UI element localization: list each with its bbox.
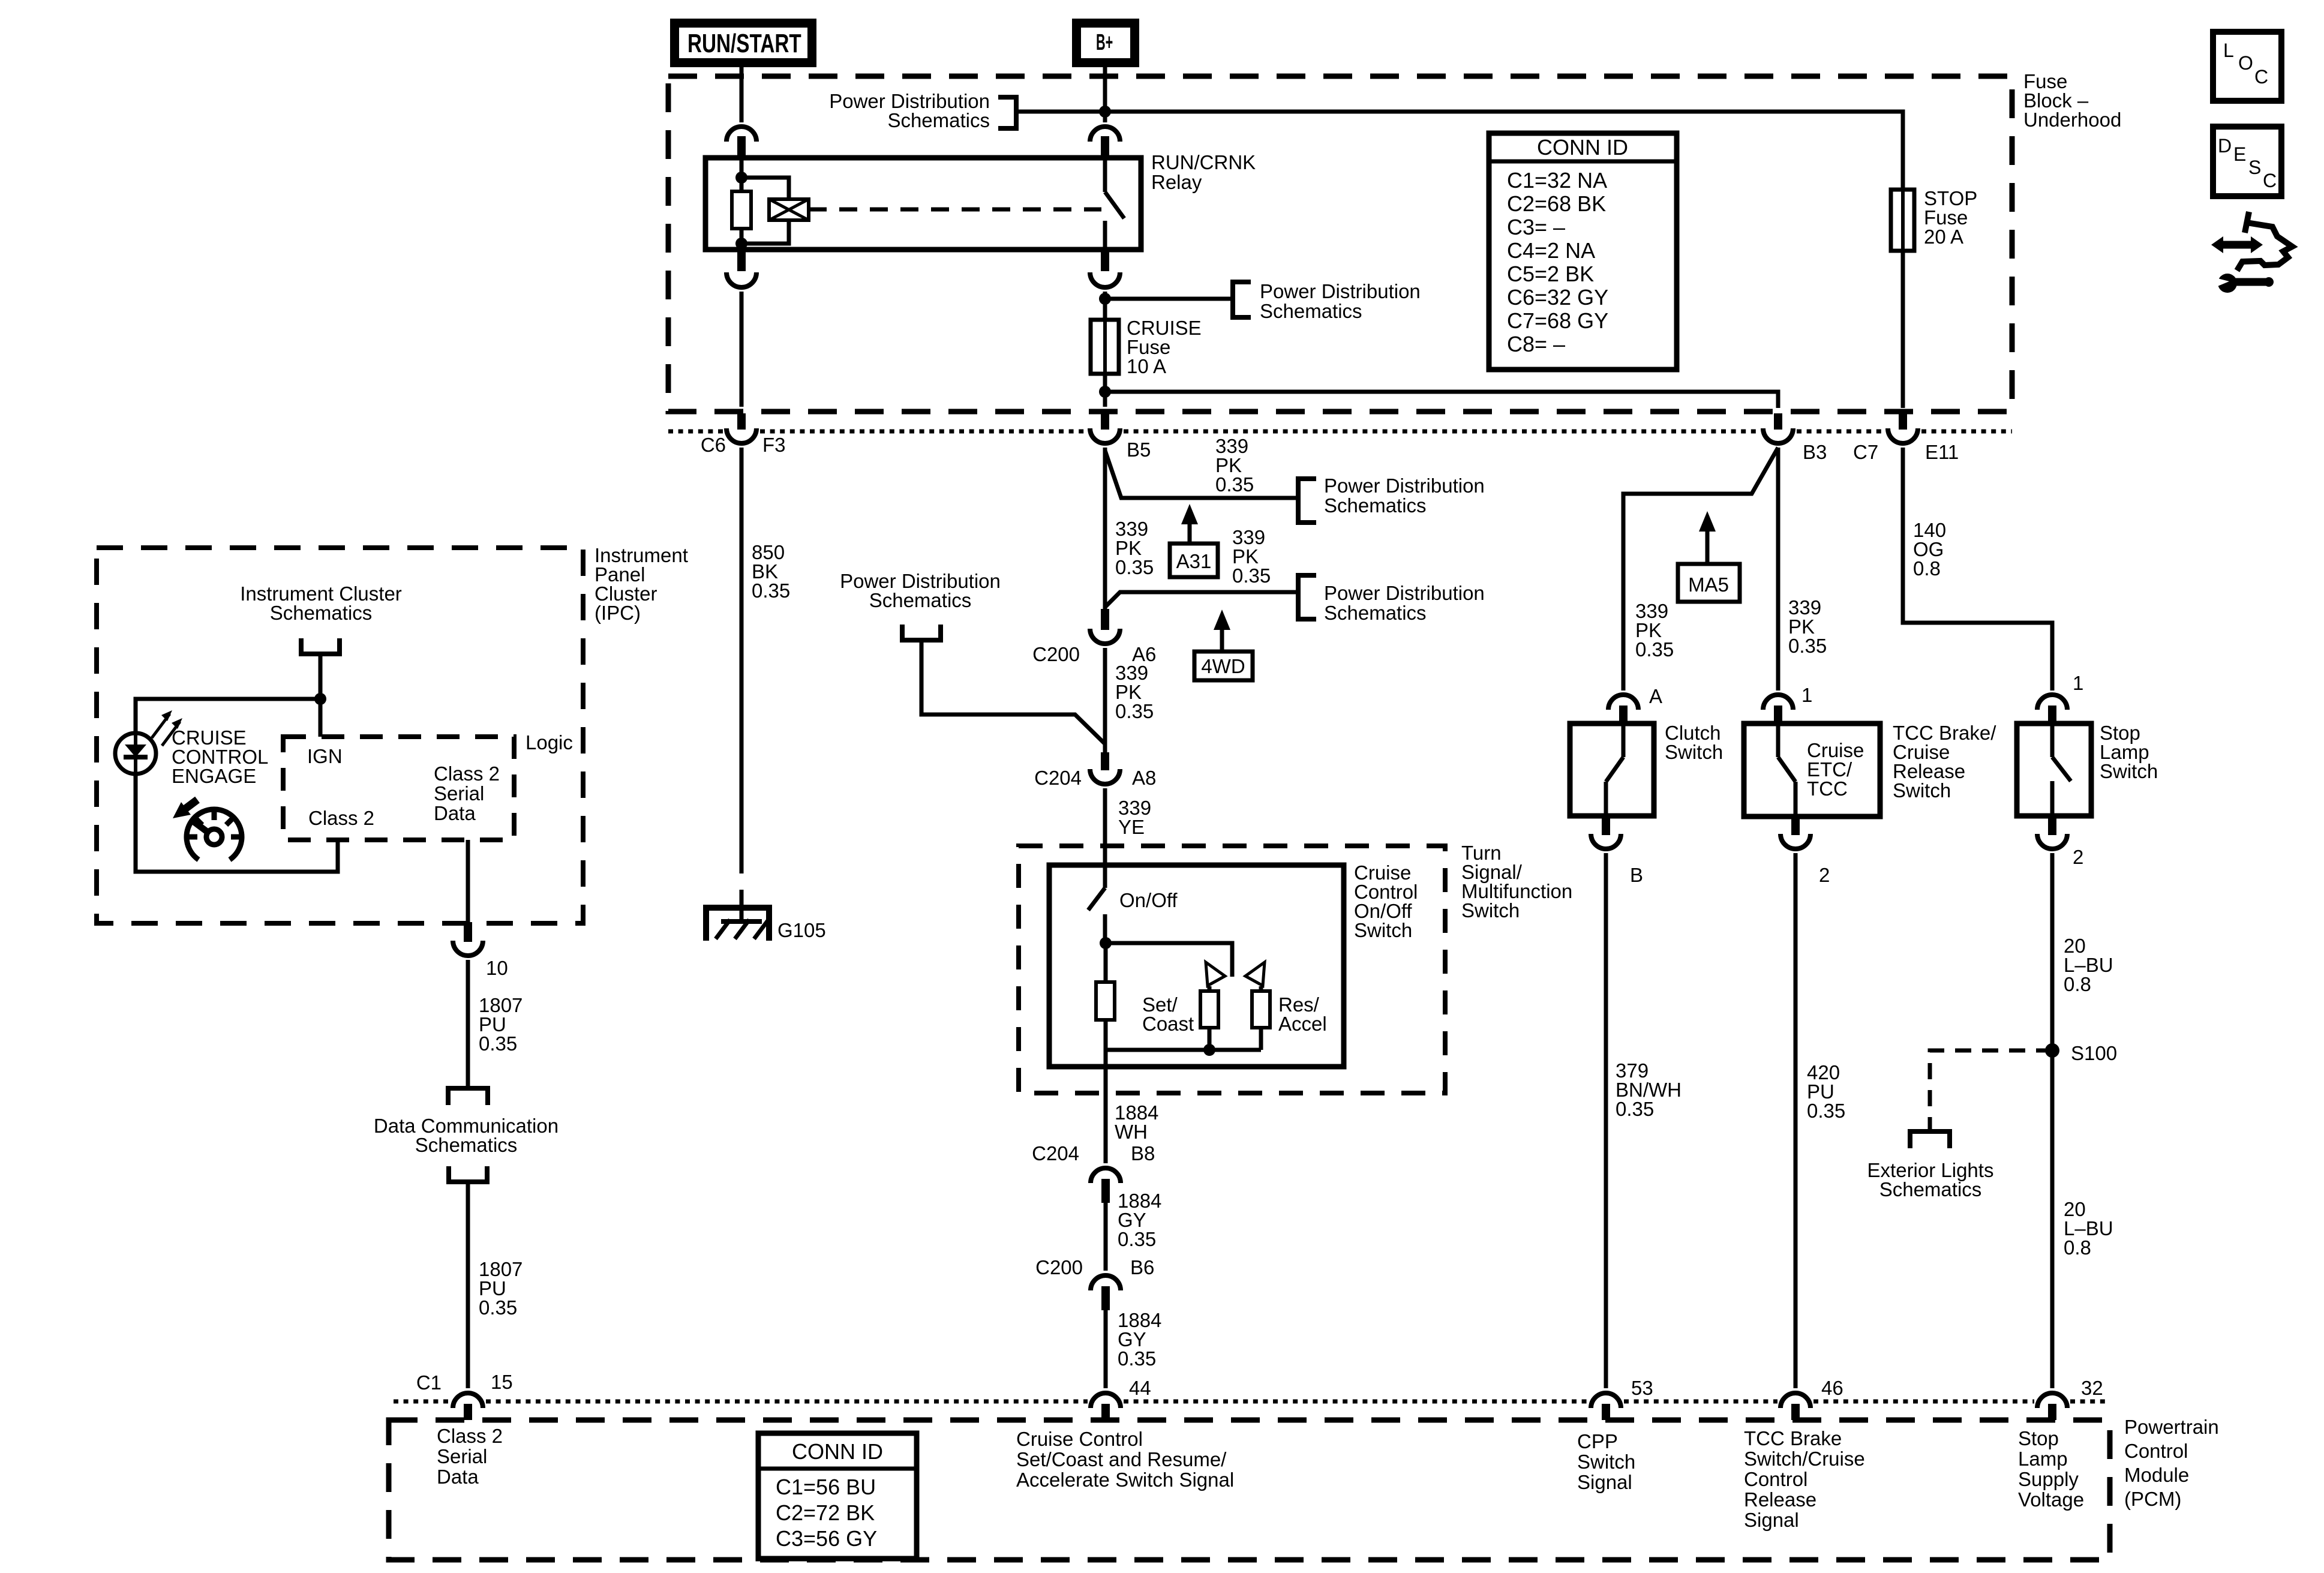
svg-text:RUN/CRNK: RUN/CRNK xyxy=(1151,151,1256,173)
svg-text:Stop: Stop xyxy=(2018,1427,2059,1449)
svg-text:D: D xyxy=(2218,135,2232,157)
svg-text:Schematics: Schematics xyxy=(887,109,990,131)
svg-text:CONN ID: CONN ID xyxy=(1537,135,1628,160)
svg-text:C7=68 GY: C7=68 GY xyxy=(1507,308,1608,333)
svg-text:B+: B+ xyxy=(1096,29,1113,55)
svg-text:C3= –: C3= – xyxy=(1507,215,1565,239)
svg-text:Relay: Relay xyxy=(1151,171,1202,193)
svg-text:4WD: 4WD xyxy=(1201,655,1245,677)
svg-text:2: 2 xyxy=(1819,864,1830,886)
svg-text:0.35: 0.35 xyxy=(479,1296,517,1319)
svg-text:Data: Data xyxy=(434,802,476,824)
svg-text:0.35: 0.35 xyxy=(752,580,790,602)
svg-text:ENGAGE: ENGAGE xyxy=(172,765,256,787)
svg-text:B5: B5 xyxy=(1127,439,1151,461)
svg-text:Switch: Switch xyxy=(1577,1451,1635,1473)
svg-text:C1=32 NA: C1=32 NA xyxy=(1507,168,1607,193)
svg-text:(IPC): (IPC) xyxy=(594,602,641,624)
svg-text:C6: C6 xyxy=(701,434,726,456)
svg-text:Signal: Signal xyxy=(1744,1509,1799,1531)
svg-text:0.35: 0.35 xyxy=(1118,1228,1156,1250)
svg-text:C7: C7 xyxy=(1853,441,1878,463)
svg-text:C1: C1 xyxy=(416,1371,442,1394)
svg-text:46: 46 xyxy=(1821,1377,1843,1399)
svg-text:C1=56 BU: C1=56 BU xyxy=(776,1475,876,1499)
svg-text:F3: F3 xyxy=(762,434,786,456)
svg-text:0.8: 0.8 xyxy=(2064,1236,2091,1259)
svg-text:Switch: Switch xyxy=(2100,760,2158,782)
svg-text:A31: A31 xyxy=(1176,550,1212,572)
svg-text:(PCM): (PCM) xyxy=(2124,1488,2181,1510)
svg-text:Coast: Coast xyxy=(1142,1013,1194,1035)
svg-text:0.35: 0.35 xyxy=(1616,1098,1654,1120)
svg-text:C: C xyxy=(2263,170,2277,191)
svg-text:Lamp: Lamp xyxy=(2018,1448,2068,1470)
svg-text:E: E xyxy=(2233,143,2246,165)
svg-text:YE: YE xyxy=(1118,816,1145,838)
svg-text:32: 32 xyxy=(2081,1377,2103,1399)
svg-text:Serial: Serial xyxy=(434,782,484,804)
svg-text:Switch: Switch xyxy=(1354,919,1412,941)
svg-text:44: 44 xyxy=(1129,1377,1151,1399)
svg-text:0.35: 0.35 xyxy=(1807,1100,1845,1122)
svg-text:C5=2 BK: C5=2 BK xyxy=(1507,262,1594,286)
svg-text:C8= –: C8= – xyxy=(1507,332,1565,356)
svg-text:1: 1 xyxy=(1801,684,1812,706)
svg-text:L: L xyxy=(2223,40,2234,61)
svg-text:0.35: 0.35 xyxy=(1115,556,1154,578)
svg-text:Schematics: Schematics xyxy=(415,1134,518,1156)
svg-text:Data: Data xyxy=(437,1466,479,1488)
svg-text:Release: Release xyxy=(1744,1488,1816,1511)
svg-text:Switch: Switch xyxy=(1461,899,1520,921)
svg-text:C200: C200 xyxy=(1035,1256,1083,1278)
svg-text:0.35: 0.35 xyxy=(1788,635,1827,657)
svg-text:E11: E11 xyxy=(1925,441,1959,463)
svg-text:CONN ID: CONN ID xyxy=(792,1439,883,1464)
svg-text:C2=72 BK: C2=72 BK xyxy=(776,1500,875,1525)
svg-text:0.8: 0.8 xyxy=(2064,973,2091,995)
svg-text:C204: C204 xyxy=(1034,767,1082,789)
svg-text:53: 53 xyxy=(1631,1377,1653,1399)
svg-text:2: 2 xyxy=(2073,846,2083,868)
svg-text:C200: C200 xyxy=(1032,643,1080,665)
svg-text:0.35: 0.35 xyxy=(1118,1347,1156,1370)
svg-text:C6=32 GY: C6=32 GY xyxy=(1507,285,1608,310)
svg-text:Set/Coast and Resume/: Set/Coast and Resume/ xyxy=(1016,1448,1227,1470)
svg-text:Serial: Serial xyxy=(437,1445,487,1467)
svg-text:Underhood: Underhood xyxy=(2023,109,2121,131)
svg-text:C: C xyxy=(2254,66,2268,88)
svg-text:Accel: Accel xyxy=(1278,1013,1327,1035)
svg-text:Logic: Logic xyxy=(526,731,573,754)
svg-text:B: B xyxy=(1630,864,1643,886)
svg-text:Module: Module xyxy=(2124,1464,2189,1486)
svg-text:Power Distribution: Power Distribution xyxy=(1324,475,1485,497)
svg-text:TCC: TCC xyxy=(1807,778,1848,800)
svg-text:Control: Control xyxy=(2124,1440,2188,1462)
svg-text:Switch: Switch xyxy=(1665,741,1723,763)
svg-text:TCC Brake: TCC Brake xyxy=(1744,1427,1842,1449)
svg-text:0.35: 0.35 xyxy=(1232,565,1271,587)
svg-text:Powertrain: Powertrain xyxy=(2124,1416,2219,1438)
svg-text:0.35: 0.35 xyxy=(1115,700,1154,722)
svg-text:B3: B3 xyxy=(1803,441,1827,463)
svg-text:C204: C204 xyxy=(1032,1142,1079,1164)
svg-text:Switch/Cruise: Switch/Cruise xyxy=(1744,1448,1865,1470)
svg-text:Supply: Supply xyxy=(2018,1468,2079,1490)
svg-text:C2=68 BK: C2=68 BK xyxy=(1507,191,1606,216)
svg-text:O: O xyxy=(2238,52,2253,74)
svg-text:0.35: 0.35 xyxy=(479,1032,517,1055)
svg-text:Switch: Switch xyxy=(1893,779,1951,801)
svg-text:Class 2: Class 2 xyxy=(437,1425,503,1447)
svg-text:MA5: MA5 xyxy=(1688,574,1729,596)
svg-text:Control: Control xyxy=(1744,1468,1807,1490)
svg-text:0.35: 0.35 xyxy=(1635,638,1674,661)
svg-text:Schematics: Schematics xyxy=(869,589,972,611)
svg-text:Schematics: Schematics xyxy=(1324,494,1427,517)
svg-text:Class 2: Class 2 xyxy=(308,807,374,829)
svg-text:C3=56 GY: C3=56 GY xyxy=(776,1526,877,1551)
svg-text:Schematics: Schematics xyxy=(1260,300,1362,322)
svg-text:0.8: 0.8 xyxy=(1913,557,1941,580)
svg-text:Signal: Signal xyxy=(1577,1471,1632,1493)
svg-text:20 A: 20 A xyxy=(1924,226,1963,248)
svg-text:G105: G105 xyxy=(777,919,826,941)
svg-text:A8: A8 xyxy=(1132,767,1156,789)
svg-text:S100: S100 xyxy=(2071,1042,2117,1064)
svg-text:CPP: CPP xyxy=(1577,1430,1618,1452)
svg-text:RUN/START: RUN/START xyxy=(687,29,801,59)
svg-text:Accelerate Switch Signal: Accelerate Switch Signal xyxy=(1016,1469,1234,1491)
svg-text:WH: WH xyxy=(1115,1121,1148,1143)
svg-text:Voltage: Voltage xyxy=(2018,1488,2084,1511)
svg-text:Schematics: Schematics xyxy=(270,602,373,624)
svg-text:Cruise Control: Cruise Control xyxy=(1016,1428,1143,1450)
svg-text:Power Distribution: Power Distribution xyxy=(1324,582,1485,604)
svg-text:On/Off: On/Off xyxy=(1119,889,1178,911)
svg-text:C4=2 NA: C4=2 NA xyxy=(1507,238,1595,263)
svg-text:10: 10 xyxy=(486,957,508,979)
svg-text:Schematics: Schematics xyxy=(1324,602,1427,624)
svg-text:B6: B6 xyxy=(1130,1256,1154,1278)
svg-text:S: S xyxy=(2248,157,2261,178)
svg-text:0.35: 0.35 xyxy=(1215,473,1254,496)
svg-text:Class 2: Class 2 xyxy=(434,763,500,785)
svg-text:Power Distribution: Power Distribution xyxy=(1260,280,1421,302)
svg-text:A: A xyxy=(1649,685,1662,707)
svg-text:1: 1 xyxy=(2073,672,2083,694)
svg-text:Schematics: Schematics xyxy=(1879,1178,1982,1200)
svg-text:B8: B8 xyxy=(1131,1142,1155,1164)
svg-text:10 A: 10 A xyxy=(1127,355,1166,377)
svg-text:15: 15 xyxy=(491,1371,513,1393)
svg-text:IGN: IGN xyxy=(307,745,343,767)
